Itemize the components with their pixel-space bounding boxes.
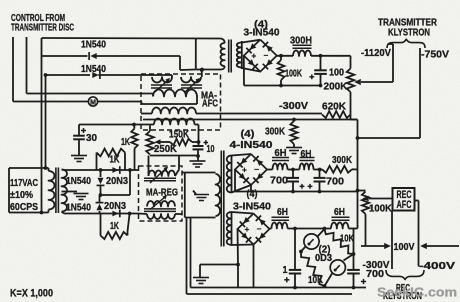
svg-text:+: + xyxy=(242,166,247,175)
svg-text:1N540: 1N540 xyxy=(81,40,106,51)
svg-text:20N3: 20N3 xyxy=(106,176,128,187)
svg-text:1N540: 1N540 xyxy=(66,203,91,214)
svg-text:100K: 100K xyxy=(369,204,393,215)
svg-text:±10%: ±10% xyxy=(10,190,33,201)
svg-text:150K: 150K xyxy=(169,130,190,141)
svg-text:100K: 100K xyxy=(285,69,302,80)
svg-text:700: 700 xyxy=(366,269,384,280)
svg-text:3-IN540: 3-IN540 xyxy=(233,202,271,213)
svg-text:117VAC: 117VAC xyxy=(10,178,39,189)
svg-text:SeekIC.com: SeekIC.com xyxy=(377,285,457,300)
svg-text:60CPS: 60CPS xyxy=(10,202,38,213)
svg-text:20N3: 20N3 xyxy=(104,201,126,212)
svg-text:6H: 6H xyxy=(277,207,288,218)
svg-text:300K: 300K xyxy=(265,127,286,138)
svg-text:-1120V: -1120V xyxy=(361,48,391,59)
svg-text:6H: 6H xyxy=(334,207,345,218)
svg-text:K=X 1,000: K=X 1,000 xyxy=(10,288,53,300)
svg-text:KLYSTRON: KLYSTRON xyxy=(388,28,430,39)
svg-text:M: M xyxy=(90,99,96,106)
svg-text:−: − xyxy=(263,51,268,60)
svg-text:1K: 1K xyxy=(110,221,119,232)
svg-text:10K: 10K xyxy=(308,275,324,286)
svg-text:0D3: 0D3 xyxy=(315,253,332,264)
svg-text:700: 700 xyxy=(326,177,344,188)
svg-text:1: 1 xyxy=(283,265,288,276)
svg-text:−: − xyxy=(257,225,262,234)
svg-text:+: + xyxy=(251,52,256,61)
svg-text:TRANSMITTER DISC: TRANSMITTER DISC xyxy=(11,23,74,34)
svg-text:6H: 6H xyxy=(301,149,312,160)
svg-text:1N540: 1N540 xyxy=(66,176,91,187)
svg-text:+: + xyxy=(245,225,250,234)
svg-text:10: 10 xyxy=(207,144,215,155)
svg-text:300K: 300K xyxy=(332,155,353,166)
svg-text:200K: 200K xyxy=(324,82,349,93)
svg-text:−: − xyxy=(254,165,259,174)
svg-text:(4): (4) xyxy=(241,129,255,140)
svg-text:4-IN540: 4-IN540 xyxy=(230,140,273,151)
svg-text:3-IN540: 3-IN540 xyxy=(244,28,280,39)
svg-text:MA-REG: MA-REG xyxy=(146,188,178,199)
svg-text:-750V: -750V xyxy=(421,50,449,61)
svg-text:-300V: -300V xyxy=(279,101,308,112)
svg-text:100: 100 xyxy=(329,68,344,79)
svg-text:100V: 100V xyxy=(394,242,415,253)
svg-text:10K: 10K xyxy=(340,234,355,245)
svg-text:AFC: AFC xyxy=(202,99,219,110)
svg-text:(4): (4) xyxy=(247,189,258,200)
svg-text:AFC: AFC xyxy=(397,199,412,211)
svg-text:1K: 1K xyxy=(110,155,121,166)
svg-text:700: 700 xyxy=(270,176,288,187)
svg-text:30: 30 xyxy=(86,133,97,144)
